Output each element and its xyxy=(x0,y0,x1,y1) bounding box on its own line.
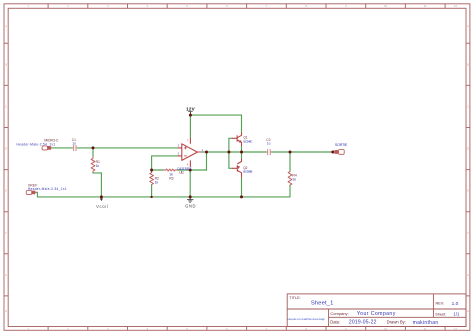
svg-text:Company:: Company: xyxy=(330,311,348,316)
svg-text:1/1: 1/1 xyxy=(453,312,460,317)
svg-text:B: B xyxy=(467,62,469,66)
svg-text:Sheet_1: Sheet_1 xyxy=(311,301,334,307)
svg-text:R3: R3 xyxy=(169,176,173,180)
svg-text:D: D xyxy=(467,147,469,151)
svg-text:H: H xyxy=(5,309,7,313)
svg-text:1k: 1k xyxy=(96,164,100,168)
svg-text:Your Company: Your Company xyxy=(357,311,396,317)
svg-text:Vcoil: Vcoil xyxy=(96,204,108,209)
svg-text:Sheet:: Sheet: xyxy=(435,313,446,317)
svg-text:REV:: REV: xyxy=(436,302,445,306)
svg-text:C: C xyxy=(467,105,469,109)
svg-text:12V: 12V xyxy=(186,107,195,112)
svg-text:B: B xyxy=(5,62,7,66)
svg-text:makinthan: makinthan xyxy=(413,320,439,326)
svg-text:Header-Male-2.54_1x1: Header-Male-2.54_1x1 xyxy=(28,187,67,191)
svg-text:BC548C: BC548C xyxy=(243,139,253,143)
svg-text:C: C xyxy=(5,105,7,109)
svg-text:GND: GND xyxy=(185,203,195,208)
svg-text:H: H xyxy=(467,309,469,313)
svg-text:1k: 1k xyxy=(292,178,296,182)
svg-text:easyeda~com-makinthan-sheet-de: easyeda~com-makinthan-sheet-design xyxy=(288,318,326,321)
svg-text:1u: 1u xyxy=(72,142,76,146)
svg-text:U1.1: U1.1 xyxy=(179,171,184,175)
svg-text:Header-Male-2.54_1x1: Header-Male-2.54_1x1 xyxy=(17,142,56,146)
svg-text:SORTIE: SORTIE xyxy=(335,143,348,147)
svg-text:G: G xyxy=(467,273,469,277)
svg-text:1u: 1u xyxy=(267,142,271,146)
svg-text:Drawn By:: Drawn By: xyxy=(387,320,406,325)
svg-text:E: E xyxy=(467,189,469,193)
svg-text:D: D xyxy=(5,147,7,151)
svg-text:1k: 1k xyxy=(155,181,159,185)
svg-text:Date:: Date: xyxy=(330,320,340,325)
svg-text:E: E xyxy=(5,189,7,193)
svg-text:TITLE:: TITLE: xyxy=(289,296,300,300)
svg-text:2019-05-22: 2019-05-22 xyxy=(349,320,377,326)
svg-text:A: A xyxy=(467,24,469,28)
svg-text:A: A xyxy=(5,24,7,28)
svg-text:BC558B: BC558B xyxy=(243,170,252,174)
svg-text:1.0: 1.0 xyxy=(452,301,459,307)
svg-text:G: G xyxy=(5,273,7,277)
